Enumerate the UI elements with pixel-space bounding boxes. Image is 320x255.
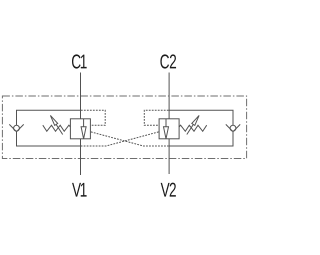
- check valve left (seat): [9, 124, 23, 131]
- poppet left (cone): [81, 127, 86, 139]
- pilot line right (dashed loop C2 to cartridge): [144, 110, 168, 125]
- adjustment arrow left (head): [50, 115, 57, 125]
- poppet left (stem): [83, 119, 85, 127]
- label C2: [160, 54, 176, 68]
- adjustment arrow left (shaft): [56, 125, 63, 135]
- spring left: [43, 125, 71, 131]
- right bypass loop wire bottom: [169, 131, 233, 146]
- right bypass loop wire top: [169, 110, 233, 125]
- left bypass loop wire bottom: [17, 131, 81, 146]
- valve assembly boundary (dash-dot enclosure): [2, 96, 246, 159]
- adjustment arrow right (shaft): [187, 125, 194, 135]
- envelope right cartridge: [159, 119, 179, 139]
- label V1: [72, 183, 87, 197]
- label V2: [161, 183, 176, 197]
- left bypass loop wire top: [17, 110, 81, 125]
- poppet right (stem): [165, 119, 167, 127]
- adjustment arrow right (head): [192, 115, 199, 125]
- check valve right (seat): [226, 124, 240, 131]
- port line C2: [168, 73, 170, 119]
- pilot line left (dashed loop C1 to cartridge): [81, 110, 105, 125]
- label C1: [72, 54, 87, 68]
- check valve right (ball): [230, 125, 236, 131]
- port line C1: [80, 73, 82, 119]
- envelope left cartridge: [70, 119, 90, 139]
- cross pilot from right cartridge to V1: [81, 132, 159, 146]
- check valve left (ball): [14, 125, 20, 131]
- poppet right (cone): [164, 127, 169, 139]
- port line V1: [80, 139, 82, 175]
- cross pilot from left cartridge to V2: [91, 132, 169, 146]
- port line V2: [168, 139, 170, 174]
- spring right: [179, 125, 207, 131]
